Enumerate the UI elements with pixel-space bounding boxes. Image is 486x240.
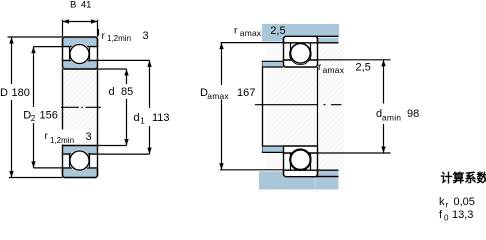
section side walls (right fig, bottom)	[283, 153, 285, 175]
dimension D2 arrow top	[31, 47, 35, 54]
leader line r12 top	[98, 29, 100, 36]
svg-text:3: 3	[86, 131, 92, 143]
svg-text:r: r	[446, 201, 449, 210]
cage lines (right fig, top)	[290, 43, 292, 61]
outer raceway groove (left fig, top)	[69, 43, 90, 64]
svg-text:d: d	[134, 112, 140, 124]
centerline (right figure axis)	[255, 104, 342, 106]
outer ring (left fig, bottom section)	[63, 168, 98, 178]
inner ring (right fig, top section)	[284, 60, 318, 67]
dimension B extension lines	[62, 20, 64, 37]
shaft face vertical	[262, 61, 264, 152]
dimension B arrow right	[91, 19, 98, 23]
inner ring (right fig, bottom section)	[284, 146, 318, 153]
bore side wall right	[97, 69, 99, 146]
svg-text:1: 1	[140, 117, 145, 126]
dimension Da line	[221, 43, 223, 85]
svg-text:1,2min: 1,2min	[50, 136, 74, 145]
dimension d arrow bottom	[124, 139, 128, 146]
dimension da arrow top	[381, 60, 385, 67]
svg-text:113: 113	[152, 112, 170, 124]
dimension d arrow top	[124, 69, 128, 76]
dimension d extension line top	[98, 68, 127, 70]
dimension D2 arrow bottom	[31, 161, 35, 168]
outer raceway groove (right fig, top)	[290, 43, 311, 64]
section side walls (left fig, top)	[62, 39, 64, 61]
inner raceway groove (right fig, bottom)	[290, 149, 311, 170]
housing shoulder line right (top)	[316, 42, 339, 44]
housing bore line right of bearing (bottom)	[316, 176, 339, 178]
dimension D extension line bottom	[9, 177, 63, 179]
svg-text:167: 167	[237, 87, 255, 99]
dimension D arrow bottom	[9, 171, 13, 178]
outer raceway groove (right fig, bottom)	[290, 149, 311, 170]
dimension d1 extension line top	[98, 59, 150, 61]
svg-text:r: r	[234, 26, 238, 37]
bore side wall left	[62, 69, 64, 146]
dimension D2 extension line top	[34, 46, 63, 48]
dimension d extension line bottom	[98, 145, 127, 147]
housing shoulder strip right (top)	[318, 38, 339, 43]
shaft surface line (top)	[263, 66, 284, 68]
dimension d line	[126, 69, 128, 84]
dimension da arrow bottom	[381, 147, 385, 154]
housing shoulder strip right (bottom)	[318, 171, 339, 176]
dimension d1 arrow top	[147, 60, 151, 67]
housing shoulder fillet (bottom-left of bearing)	[284, 170, 289, 174]
cage lines (left fig, bottom)	[69, 153, 71, 168]
inner raceway groove (left fig, top)	[69, 43, 90, 64]
svg-text:3: 3	[143, 30, 149, 42]
hatched bore region (left figure)	[59, 69, 102, 146]
shaft shoulder line (top)	[262, 60, 284, 62]
dimension d1 extension line bottom	[98, 153, 150, 155]
ball (left fig, bottom)	[70, 151, 89, 170]
cage lines (right fig, bottom)	[290, 153, 292, 171]
dimension Da extension top (merges with housing shoulder bottom line)	[221, 42, 285, 44]
svg-text:amax: amax	[207, 91, 229, 101]
shaft surface line (bottom)	[263, 145, 284, 147]
dimension da extension bottom	[318, 152, 391, 154]
inner raceway groove (left fig, bottom)	[69, 150, 90, 171]
svg-text:0: 0	[444, 214, 449, 223]
inner ring (left fig, bottom section)	[63, 146, 98, 155]
housing shoulder fillet (top-left of bearing)	[284, 39, 289, 43]
ball (left fig, top)	[70, 44, 89, 63]
dimension D arrow top	[9, 37, 13, 44]
hatched region (right figure)	[266, 44, 344, 170]
dimension Da extension bottom	[220, 169, 284, 171]
svg-text:13,3: 13,3	[452, 209, 473, 221]
housing shoulder line right (bottom)	[316, 169, 339, 171]
section side walls (right fig, top)	[283, 38, 285, 60]
dimension B arrow left	[63, 19, 70, 23]
dimension da extension top	[318, 59, 391, 61]
shaft side walls (bore region)	[262, 67, 264, 146]
svg-text:f: f	[439, 209, 443, 221]
svg-text:1,2min: 1,2min	[107, 34, 131, 43]
white backing for bottom r label	[42, 130, 94, 145]
dimension Da arrow top	[219, 43, 223, 50]
svg-text:85: 85	[121, 86, 133, 98]
dimension da line	[383, 60, 385, 104]
svg-text:amax: amax	[240, 28, 262, 38]
shaft shoulder bar (bottom)	[263, 146, 284, 152]
inner raceway groove (right fig, top)	[290, 43, 311, 64]
dimension D2 extension line bottom	[34, 167, 63, 169]
svg-text:B 41: B 41	[70, 0, 91, 11]
inner ring (left fig, top section)	[63, 60, 98, 69]
svg-text:r: r	[102, 31, 106, 42]
svg-text:amax: amax	[323, 65, 345, 75]
shaft shoulder bar (top)	[263, 61, 284, 67]
dimension d1 line	[149, 60, 151, 108]
dimension B line	[63, 21, 98, 23]
svg-text:D: D	[0, 87, 8, 99]
svg-text:180: 180	[12, 87, 30, 99]
svg-text:0,05: 0,05	[454, 196, 475, 208]
housing bottom (blue)	[259, 171, 284, 189]
svg-text:156: 156	[40, 110, 58, 122]
dimension D line	[11, 37, 13, 84]
housing top slab (blue)	[262, 24, 284, 42]
cage lines (left fig, top)	[69, 47, 71, 62]
outer ring (right fig, bottom section)	[284, 170, 318, 177]
svg-text:k: k	[439, 196, 445, 208]
dimension Da arrow bottom	[219, 163, 223, 170]
ball (right fig, top)	[291, 44, 311, 64]
svg-text:2: 2	[31, 114, 36, 123]
dimension D extension line top	[8, 36, 63, 38]
centerline (left figure axis)	[61, 106, 101, 108]
shaft shoulder line (bottom)	[262, 151, 284, 153]
ball (right fig, bottom)	[291, 150, 311, 170]
svg-text:2,5: 2,5	[356, 62, 371, 74]
outer ring (left fig, top section)	[63, 37, 98, 47]
housing bore line right of bearing (top)	[316, 35, 339, 37]
outer ring (right fig, top section)	[284, 36, 318, 43]
svg-text:2,5: 2,5	[270, 25, 285, 37]
svg-text:98: 98	[407, 108, 419, 120]
svg-text:amin: amin	[382, 113, 401, 123]
svg-text:计算系数: 计算系数	[441, 170, 486, 185]
section side walls (left fig, bottom)	[62, 154, 64, 176]
dimension D2 line	[33, 47, 35, 107]
svg-text:d: d	[109, 86, 115, 98]
outer raceway groove (left fig, bottom)	[69, 150, 90, 171]
dimension d1 arrow bottom	[147, 148, 151, 155]
